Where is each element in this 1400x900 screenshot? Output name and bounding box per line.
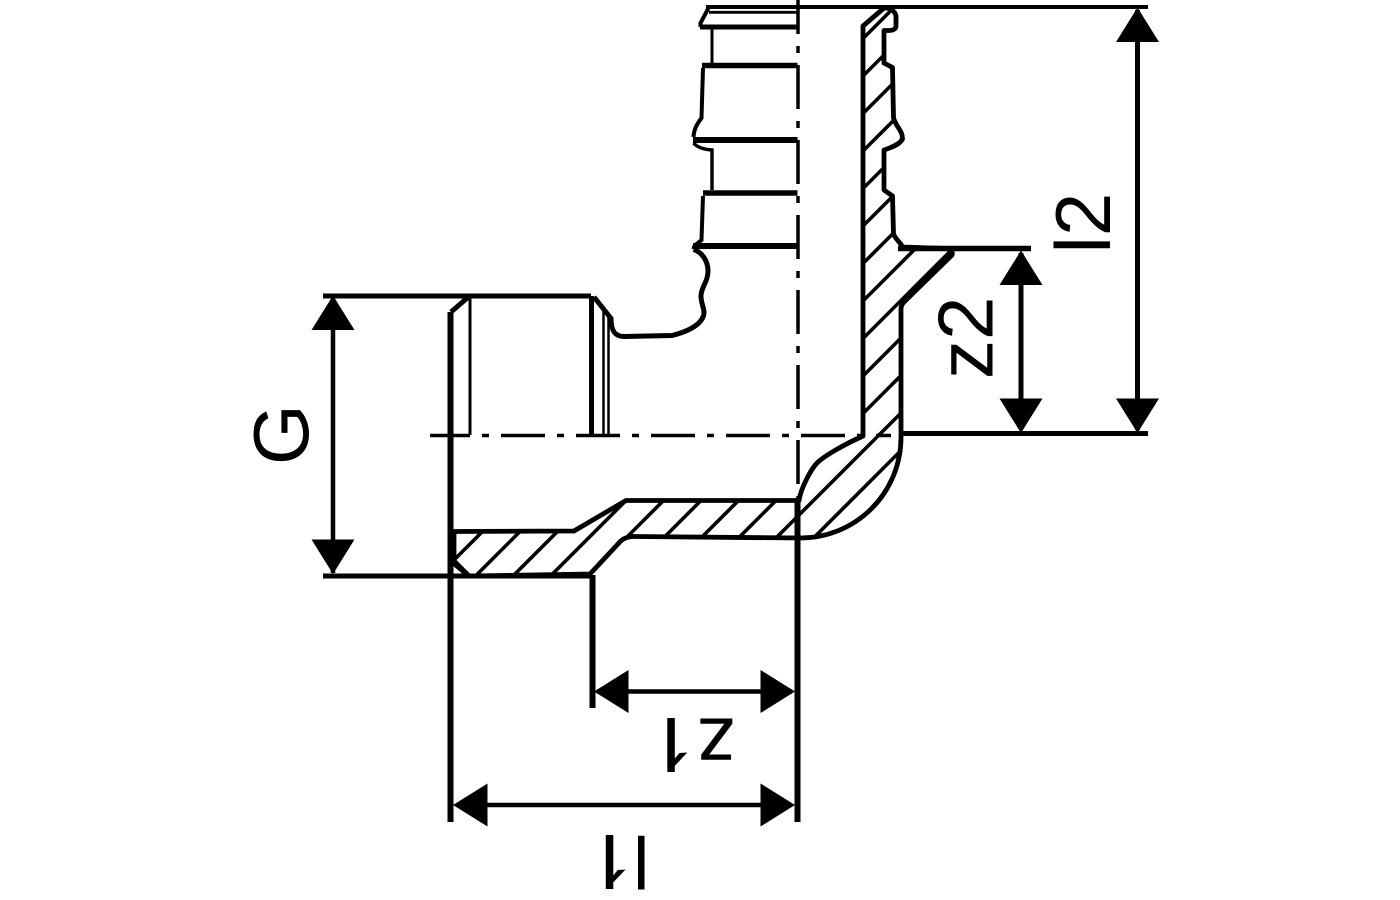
thread start line [469,296,472,435]
dimension z1 arrow right [761,670,796,713]
left face + l1 left extension line [448,312,454,822]
dimension l2 arrow up [1116,8,1159,43]
dimension l1 label [606,835,626,889]
dimension G line [331,299,336,573]
section region hatching [264,0,1389,600]
barb ring line 5 [693,243,798,249]
z2 top extension line (ledge) [898,246,1031,252]
body S-curve from barb to elbow body and thread chamfer [594,250,708,337]
vertical centerline [796,0,800,500]
thread left end chamfer top [451,296,470,312]
barb ring line 3 [693,137,798,143]
svg-text:l: l [633,820,649,900]
dimension l1 arrow left [453,784,488,827]
barb neck left 1 [711,29,714,63]
barb 1 left edge [694,68,704,137]
barb ring line 2 [702,63,798,69]
dimension G arrow up [312,296,355,331]
barb lip return 1 [694,143,713,190]
dimension z2 arrow up [1000,251,1043,286]
spigot tip chamfer left [701,8,709,27]
dimension l2 line [1135,10,1140,430]
z1 left extension line [590,575,596,708]
thread left end chamfer bottom [451,561,470,577]
dimension l2 arrow down [1116,399,1159,434]
dimension l1 arrow right [761,784,796,827]
horizontal centerline [430,434,891,438]
thread OD top edge + G top extension line [323,294,591,299]
svg-text:l2: l2 [1039,193,1127,254]
dimension z1 arrow left [594,670,629,713]
thread OD bottom edge + G bottom extension line [323,574,591,579]
dimension l1 line [457,803,791,808]
barb 2 left edge [694,196,704,249]
thread runout line 2 [607,317,610,436]
dimension G arrow down [312,540,355,575]
barb ring line 1 [700,25,798,30]
svg-text:z: z [697,702,736,790]
dimension z2 line [1019,253,1024,429]
dimension z1 line [597,689,792,694]
thread runout line 1 [602,309,605,436]
dimension z2 arrow down [1000,399,1043,434]
svg-text:G: G [237,404,325,465]
z1/l1 right extension line [795,502,801,822]
thread end vertical [589,296,594,437]
dimension z1 label [667,718,687,772]
section outline (right wall, elbow corner, bottom wall) [454,8,952,576]
svg-text:z2: z2 [922,297,1010,379]
l2 bottom extension line [899,431,1148,436]
top mouth edge + l2 top extension line [706,5,1148,9]
mouth inner chamfer edge [709,11,797,14]
barb ring line 4 [703,190,798,196]
